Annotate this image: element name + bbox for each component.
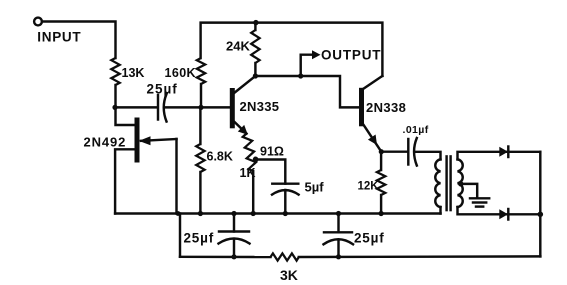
wire 160K bottom to node B	[200, 84, 202, 107]
wire bus drop to lower bus	[179, 214, 181, 257]
resistor R4 91ohm 1K chain	[243, 134, 256, 172]
Q1 emitter lead	[141, 139, 177, 141]
node top bus 24K junction	[253, 20, 258, 25]
svg-text:.01µf: .01µf	[403, 124, 429, 136]
svg-text:12K: 12K	[358, 181, 380, 193]
junction bus C2	[283, 211, 288, 216]
wire node B to Q2 base	[201, 106, 231, 108]
capacitor C5 .01uf curved plate	[414, 138, 417, 166]
wire C2 to bus	[284, 190, 286, 214]
wire node E to 12K	[380, 152, 382, 170]
transformer T1 secondary winding	[458, 159, 463, 207]
junction right return	[538, 212, 544, 218]
label 25uf C4	[354, 231, 385, 246]
junction bus emitter	[176, 211, 181, 216]
label INPUT	[37, 29, 81, 44]
Q3 emitter arrowhead	[368, 135, 377, 146]
capacitor C1 25uf right plate	[164, 94, 167, 122]
upper ground bus	[115, 212, 440, 214]
capacitor C1 25uf left plate	[157, 95, 159, 120]
junction bus 12K	[379, 211, 384, 216]
Q1 emitter arrowhead	[139, 136, 151, 145]
capacitor C3 25uf curved plate	[219, 239, 250, 244]
wire tap to C2	[256, 160, 286, 184]
svg-text:13K: 13K	[122, 66, 145, 80]
transformer T1 primary bottom lead	[439, 207, 441, 214]
wire node A to C1	[116, 106, 157, 108]
transformer secondary bottom lead	[458, 207, 541, 214]
svg-text:5µf: 5µf	[305, 180, 325, 195]
label 2N335	[240, 99, 280, 114]
label 1K	[240, 166, 256, 180]
junction lower bus C4	[336, 254, 341, 259]
transformer T1 core	[447, 156, 451, 210]
node E junction emitter	[379, 149, 384, 154]
transistor Q1 2N492 bar	[135, 118, 140, 163]
wire Q1 emitter down to bus	[175, 139, 177, 214]
lower bus wire right part	[299, 255, 541, 258]
svg-text:2N335: 2N335	[240, 99, 280, 114]
svg-text:3K: 3K	[280, 267, 298, 283]
svg-text:INPUT: INPUT	[37, 29, 81, 44]
label 13K	[122, 66, 145, 80]
resistor R2 160K	[197, 58, 205, 84]
wire output stub	[301, 55, 313, 76]
junction bus 6.8K	[198, 211, 203, 216]
capacitor C2 5uf top plate	[272, 182, 298, 184]
svg-text:91Ω: 91Ω	[260, 145, 284, 159]
wire 1K bottom to lower bus	[252, 171, 254, 214]
wire node C to node D	[255, 75, 300, 77]
resistor R3 24K	[251, 30, 259, 63]
output arrowhead	[312, 50, 321, 59]
capacitor C5 .01uf left plate	[407, 139, 409, 165]
capacitor C2 5uf curved plate	[272, 190, 299, 195]
node tap junction	[253, 157, 259, 163]
input terminal	[34, 18, 42, 26]
wire top bus to 24K	[254, 23, 256, 30]
transformer T1 primary winding	[435, 159, 440, 207]
label 2N338	[366, 100, 406, 115]
svg-text:25µf: 25µf	[184, 231, 215, 246]
wire 13K bottom to node A	[114, 85, 116, 107]
wire input to 13K top	[42, 22, 116, 59]
wire C1 to node B	[165, 106, 202, 108]
node D junction	[298, 73, 303, 78]
label 24K	[226, 39, 250, 54]
Q3 emitter lead	[363, 124, 381, 152]
label 160K	[165, 66, 196, 80]
diode CR1 top	[499, 147, 508, 158]
junction bus C3	[231, 211, 236, 216]
Q2 emitter arrowhead	[238, 125, 248, 135]
wire node D to Q3 base	[301, 76, 360, 107]
wire center tap to ground	[461, 184, 477, 198]
capacitor C4 25uf stem top	[337, 214, 339, 233]
label 91ohm	[260, 145, 284, 159]
label 25uf	[147, 82, 178, 97]
Q2 emitter lead	[234, 121, 247, 134]
junction bus 1K	[251, 211, 256, 216]
resistor R6 3K	[271, 253, 299, 260]
capacitor C3 25uf top plate	[219, 230, 249, 232]
transistor Q3 2N338 bar	[359, 88, 364, 127]
capacitor C3 stem bottom	[233, 239, 235, 257]
transistor Q1 2N492 label	[84, 135, 127, 150]
label .01uf	[403, 124, 429, 136]
transformer secondary top lead	[458, 152, 541, 160]
svg-text:24K: 24K	[226, 39, 250, 54]
top bus wire	[201, 23, 383, 76]
svg-text:6.8K: 6.8K	[207, 150, 233, 164]
capacitor C4 25uf curved plate	[324, 239, 354, 244]
label 3K	[280, 267, 298, 283]
label 5uf	[305, 180, 325, 195]
junction lower bus C3	[231, 254, 236, 259]
wire 24K bottom to node C	[254, 63, 256, 76]
resistor R5 6.8K top lead	[199, 107, 201, 144]
ground	[470, 198, 489, 206]
Q1 base1 lead	[115, 149, 135, 213]
node A junction	[112, 105, 117, 110]
capacitor C4 25uf top plate	[324, 231, 352, 233]
right return wire	[539, 152, 541, 257]
wire 6.8K bottom to bus	[199, 172, 201, 214]
label 25uf C3	[184, 231, 215, 246]
svg-text:25µf: 25µf	[147, 82, 178, 97]
lower bus wire	[180, 256, 271, 259]
center tap junction	[458, 181, 463, 186]
svg-text:2N492: 2N492	[84, 135, 127, 150]
label 12K	[358, 181, 380, 193]
label OUTPUT	[321, 48, 381, 63]
junction bus C4	[336, 211, 341, 216]
svg-text:25µf: 25µf	[354, 231, 385, 246]
wire node E to C5	[381, 150, 406, 152]
capacitor C4 stem bottom	[337, 240, 339, 257]
svg-text:OUTPUT: OUTPUT	[321, 48, 381, 63]
Q2 collector lead	[234, 76, 256, 94]
capacitor C3 25uf stem top	[233, 214, 235, 232]
resistor R1 13K	[111, 58, 119, 85]
wire C5 to transformer primary top	[415, 152, 441, 160]
Q1 base2 lead	[116, 107, 136, 125]
transistor Q2 2N335 bar	[230, 88, 235, 128]
label 6.8K	[207, 150, 233, 164]
wire 12K bottom to bus	[380, 195, 382, 214]
svg-text:160K: 160K	[165, 66, 196, 80]
diode CR2 bottom	[499, 209, 508, 220]
resistor R5 6.8K	[196, 144, 204, 172]
resistor R7 12K	[377, 170, 385, 195]
node C junction	[253, 73, 258, 78]
node B junction	[198, 105, 203, 110]
svg-text:2N338: 2N338	[366, 100, 406, 115]
Q3 collector lead	[363, 76, 382, 89]
